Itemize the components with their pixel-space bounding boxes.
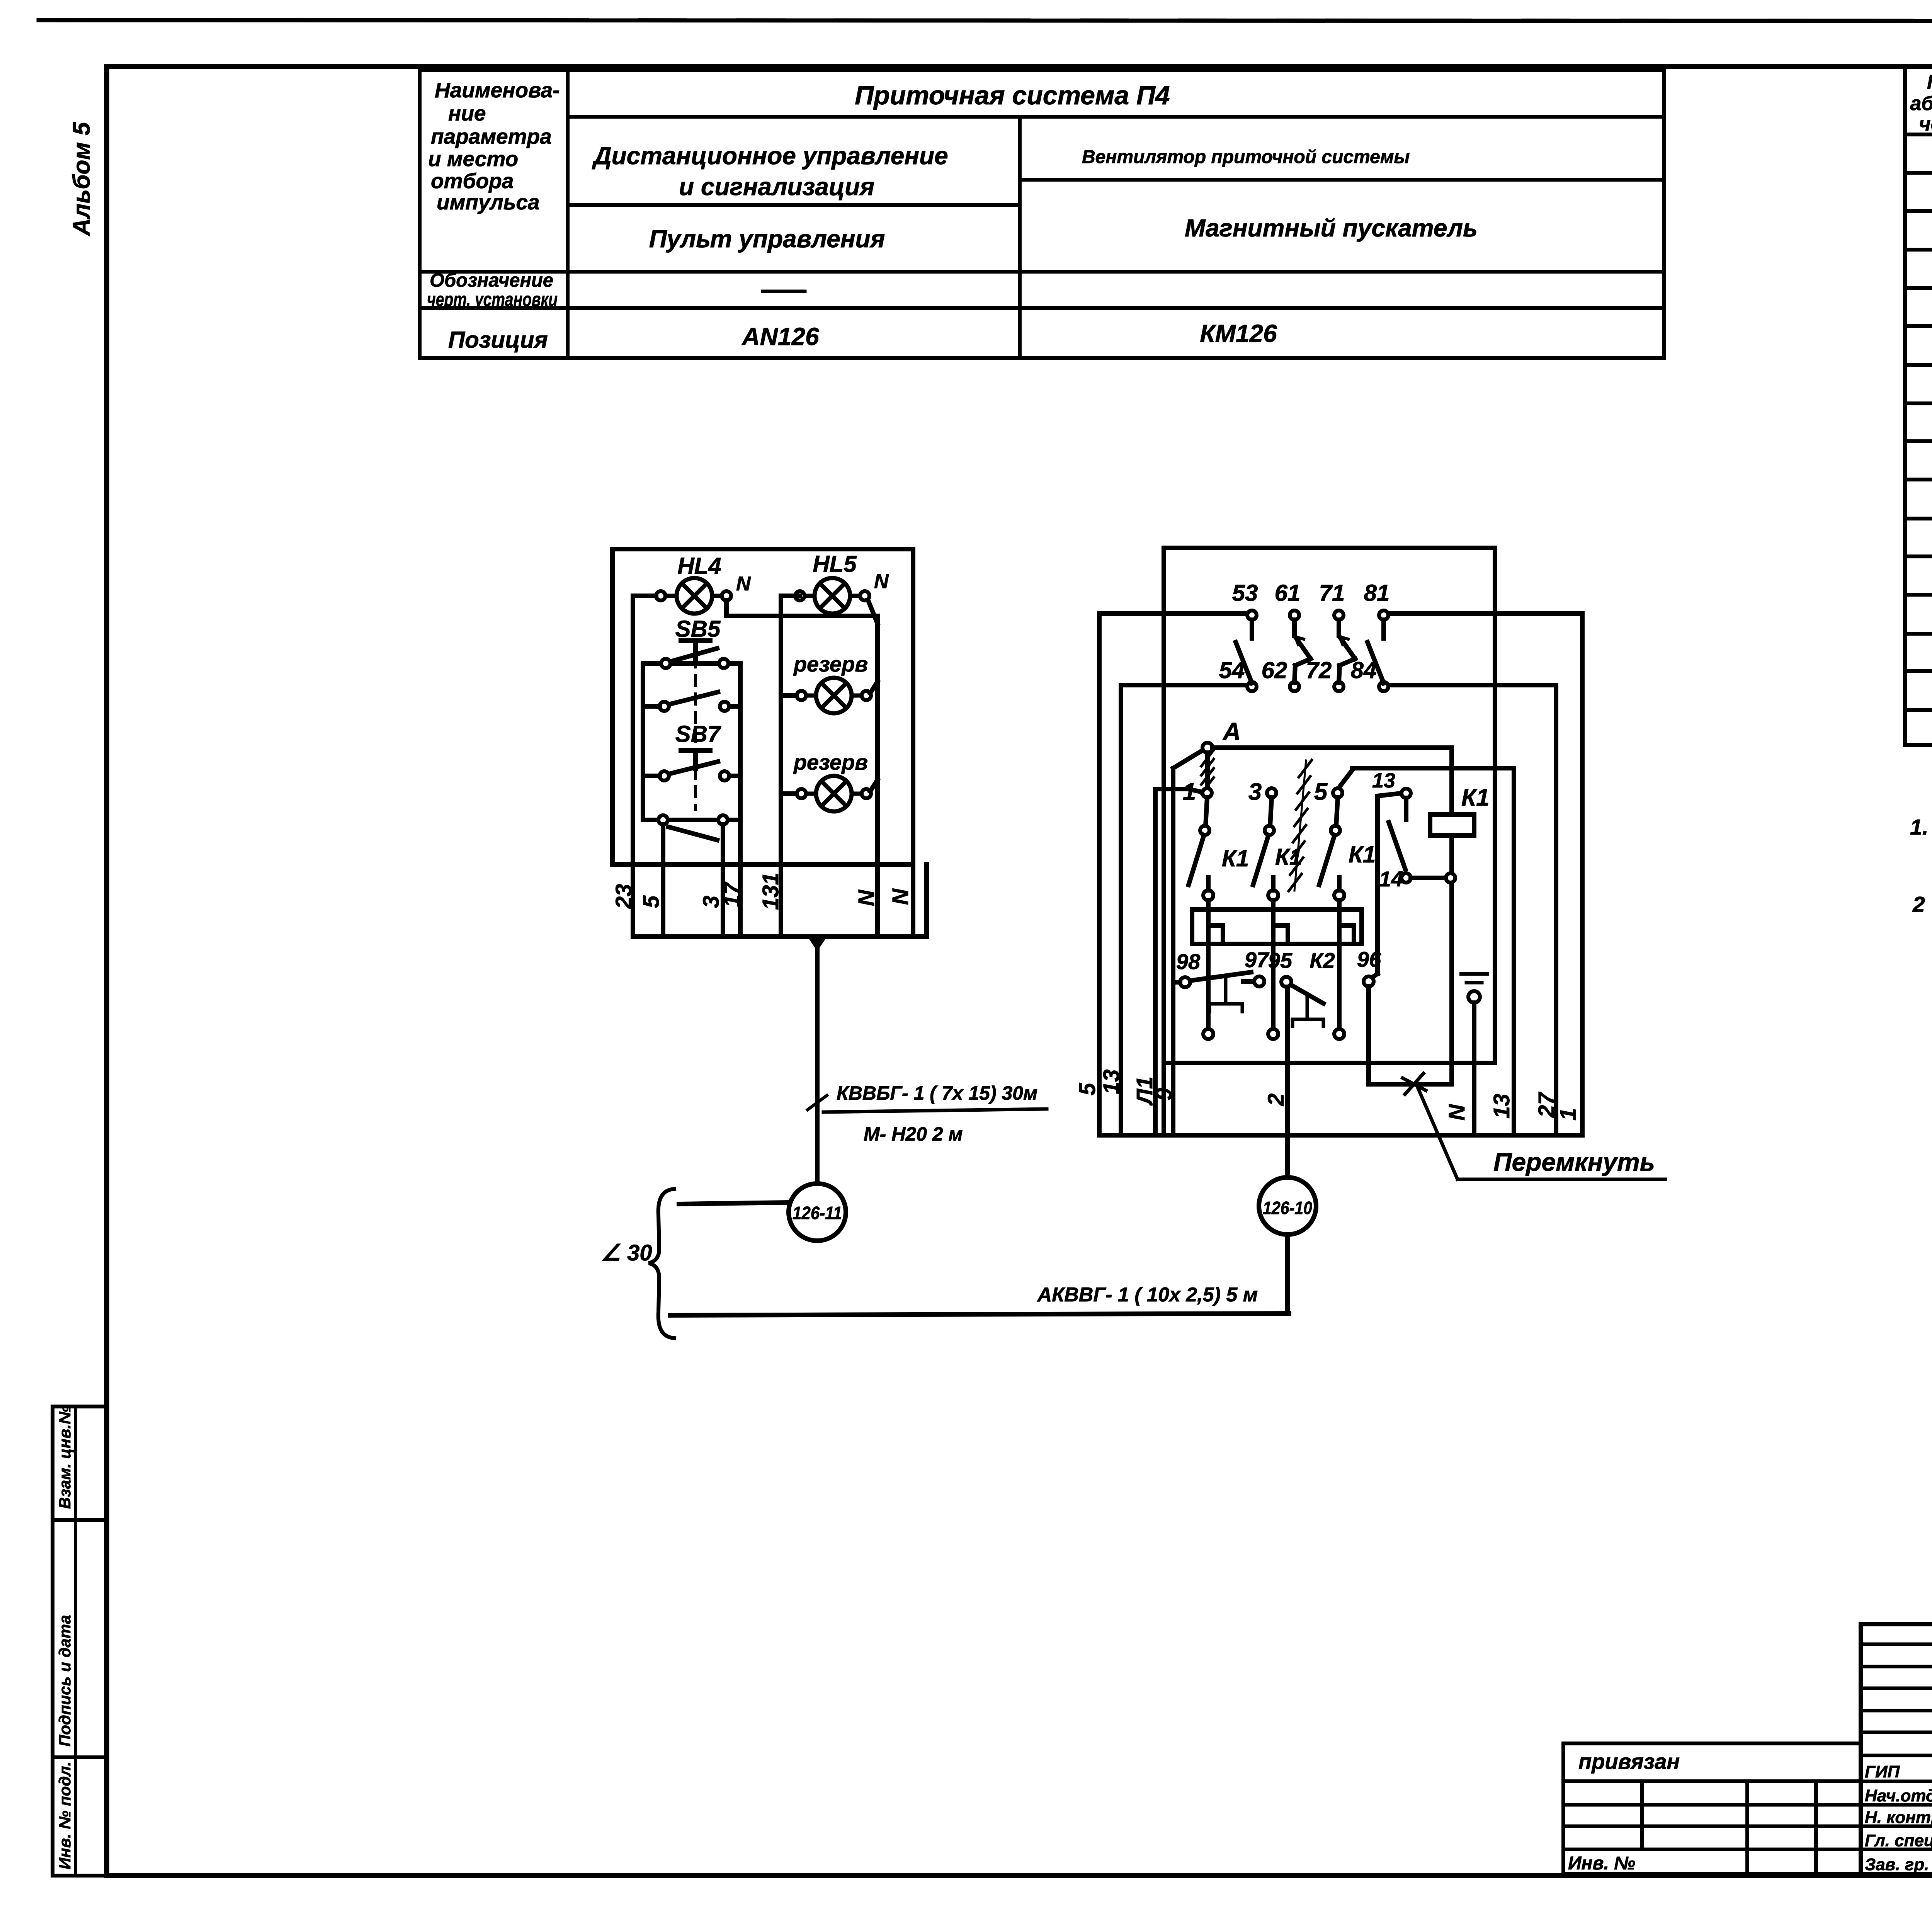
svg-text:131: 131: [758, 872, 783, 910]
svg-text:1: 1: [1183, 779, 1196, 805]
svg-text:9: 9: [1151, 1088, 1177, 1100]
svg-text:2: 2: [1264, 1094, 1289, 1106]
svg-text:14: 14: [1379, 867, 1403, 891]
svg-text:81: 81: [1364, 580, 1390, 606]
svg-text:Поз.: Поз.: [1927, 71, 1932, 94]
svg-text:М- Н20 2 м: М- Н20 2 м: [864, 1123, 963, 1145]
svg-text:Магнитный пускатель: Магнитный пускатель: [1185, 214, 1478, 242]
svg-text:N: N: [888, 888, 913, 905]
svg-text:Обозначение: Обозначение: [430, 269, 553, 291]
svg-text:Подпись и дата: Подпись и дата: [56, 1615, 74, 1747]
svg-text:ние: ние: [448, 101, 486, 125]
svg-text:Пульт управления: Пульт управления: [649, 225, 885, 253]
svg-text:Инв. №: Инв. №: [1568, 1853, 1635, 1874]
svg-text:Н. контр.: Н. контр.: [1865, 1808, 1932, 1827]
svg-text:23: 23: [611, 884, 636, 909]
svg-text:Приточная система П4: Приточная система П4: [855, 81, 1170, 110]
svg-text:N: N: [874, 570, 889, 593]
svg-text:А: А: [1222, 718, 1241, 745]
svg-text:HL5: HL5: [813, 551, 857, 577]
svg-text:N: N: [736, 573, 751, 595]
svg-text:Гл. спец.: Гл. спец.: [1865, 1831, 1932, 1850]
svg-text:∠ 30: ∠ 30: [601, 1240, 652, 1265]
svg-text:95: 95: [1268, 948, 1293, 973]
svg-text:Позиция: Позиция: [448, 327, 548, 353]
svg-text:97: 97: [1245, 947, 1270, 972]
svg-text:К1: К1: [1461, 784, 1490, 811]
svg-text:К1: К1: [1222, 845, 1249, 871]
svg-text:126-10: 126-10: [1263, 1198, 1312, 1218]
svg-text:71: 71: [1319, 580, 1345, 606]
svg-text:АКВВГ- 1 ( 10х 2,5) 5 м: АКВВГ- 1 ( 10х 2,5) 5 м: [1037, 1284, 1258, 1306]
svg-text:и место: и место: [428, 147, 518, 171]
svg-text:параметра: параметра: [431, 124, 552, 148]
svg-text:3: 3: [1248, 779, 1262, 805]
svg-text:1. Раскладка трасс 126 -: 1. Раскладка трасс 126 - 1... 126 - 11 в…: [1910, 815, 1932, 840]
svg-text:HL4: HL4: [677, 553, 721, 579]
svg-text:Взам. цнв.№: Взам. цнв.№: [56, 1406, 74, 1509]
svg-text:13: 13: [1489, 1094, 1514, 1119]
svg-text:72: 72: [1306, 657, 1332, 683]
svg-text:черт. установки: черт. установки: [427, 289, 558, 310]
svg-text:SB7: SB7: [675, 721, 721, 747]
svg-text:Вентилятор приточной систем: Вентилятор приточной системы: [1082, 147, 1410, 167]
svg-text:К2: К2: [1310, 948, 1335, 973]
svg-text:привязан: привязан: [1578, 1749, 1680, 1774]
svg-text:62: 62: [1262, 657, 1287, 683]
svg-text:отбора: отбора: [431, 169, 514, 193]
svg-text:Альбом 5: Альбом 5: [68, 121, 95, 236]
svg-text:Нач.отд.: Нач.отд.: [1865, 1786, 1932, 1805]
svg-text:К1: К1: [1349, 842, 1376, 867]
svg-text:61: 61: [1275, 580, 1301, 606]
svg-text:96: 96: [1357, 947, 1381, 971]
svg-text:1: 1: [1556, 1108, 1581, 1121]
svg-text:SB5: SB5: [675, 616, 721, 642]
svg-text:ГИП: ГИП: [1865, 1762, 1900, 1781]
svg-text:N: N: [854, 889, 879, 906]
svg-text:резерв: резерв: [793, 652, 868, 676]
svg-text:5: 5: [639, 895, 664, 908]
svg-text:5: 5: [1314, 779, 1328, 805]
svg-text:5: 5: [1075, 1083, 1100, 1095]
svg-text:N: N: [1444, 1104, 1469, 1121]
svg-text:98: 98: [1176, 949, 1201, 974]
svg-text:13: 13: [1099, 1069, 1124, 1094]
svg-text:2: 2: [1912, 892, 1925, 917]
svg-text:КМ126: КМ126: [1200, 320, 1277, 347]
svg-text:АN126: АN126: [741, 323, 819, 350]
svg-text:резерв: резерв: [793, 750, 868, 774]
svg-text:13: 13: [1372, 769, 1395, 792]
svg-text:КВВБГ- 1 ( 7х 15) 30м: КВВБГ- 1 ( 7х 15) 30м: [837, 1082, 1037, 1104]
svg-text:Перемкнуть: Перемкнуть: [1493, 1148, 1655, 1176]
svg-text:и сигнализация: и сигнализация: [679, 173, 874, 201]
svg-text:17: 17: [719, 881, 745, 907]
svg-text:импульса: импульса: [437, 190, 540, 214]
svg-text:Наименова-: Наименова-: [435, 78, 560, 102]
svg-text:126-11: 126-11: [793, 1203, 842, 1223]
svg-text:Инв. № подл.: Инв. № подл.: [56, 1762, 74, 1869]
svg-text:абозна-: абозна-: [1910, 92, 1932, 115]
svg-text:чение: чение: [1919, 113, 1932, 135]
svg-text:Зав. гр.: Зав. гр.: [1865, 1855, 1929, 1874]
svg-text:Дистанционное управление: Дистанционное управление: [592, 142, 948, 170]
svg-text:53: 53: [1232, 580, 1258, 606]
